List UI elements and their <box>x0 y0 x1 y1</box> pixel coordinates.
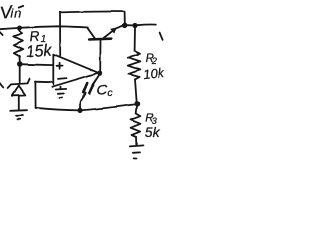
ground G1 (below zener) <box>10 109 27 112</box>
capacitor Cc bottom lead <box>80 92 86 110</box>
node F (R2/R3 divider junction) <box>134 101 140 107</box>
wire node B to op-amp + input <box>20 63 53 66</box>
wire op-amp - input stub <box>35 81 53 84</box>
node E (output / R2 top) <box>132 23 137 28</box>
capacitor Cc top lead <box>92 75 98 85</box>
wire feedback bottom run to divider node <box>36 104 137 110</box>
wire R3 bottom to ground <box>135 137 137 145</box>
wire node E down to R2 <box>134 28 136 51</box>
op-amp V- pin stub <box>60 87 62 89</box>
svg-text:R: R <box>29 28 40 45</box>
node D (emitter / top rail / output) <box>122 23 128 29</box>
op-amp U1 triangle <box>52 54 99 87</box>
wire output to right edge <box>137 23 155 26</box>
op-amp - input symbol <box>58 77 67 80</box>
svg-text:C: C <box>96 82 107 99</box>
ground G2 (op-amp V-) <box>56 88 66 91</box>
resistor R3 <box>131 114 141 138</box>
wire feedback down-leg <box>34 82 36 108</box>
zener diode D1 triangle <box>12 86 25 96</box>
ground G3 (below R3) <box>130 145 144 146</box>
svg-text:c: c <box>107 87 113 99</box>
input terminal tick left edge <box>0 32 3 35</box>
wire node D to node E <box>127 24 133 26</box>
node A (Vin / R1 top) <box>17 26 22 31</box>
svg-text:15k: 15k <box>25 42 53 61</box>
transistor Q1 emitter arrowhead <box>110 27 117 33</box>
resistor R1 <box>14 29 23 62</box>
wire top rail (node D up and left to op-amp V+) <box>60 12 125 25</box>
zener diode D1 cathode bar <box>8 79 30 88</box>
wire R2 bottom to node F <box>135 79 137 101</box>
op-amp + input symbol <box>57 63 63 69</box>
wire node B down to zener <box>19 64 21 82</box>
wire emitter to node D <box>116 26 122 29</box>
resistor R2 <box>128 51 141 79</box>
wire node F down to R3 <box>135 106 138 113</box>
wire base lead Q1 <box>99 40 101 73</box>
text fragment right edge (Vout) <box>160 33 163 40</box>
wire Vin input rail <box>0 26 88 29</box>
svg-text:10k: 10k <box>143 65 164 82</box>
svg-text:2: 2 <box>151 56 157 66</box>
svg-text:5k: 5k <box>145 124 161 140</box>
op-amp V+ supply pin from top rail <box>59 12 61 55</box>
transistor Q1 base bar <box>89 37 111 40</box>
node B (R1 bottom / zener / op-amp +) <box>17 61 23 67</box>
text fragment left edge <box>0 84 3 88</box>
node C (op-amp output / base junction) <box>97 71 102 76</box>
transistor Q1 collector lead <box>88 28 95 38</box>
transistor Q1 emitter lead <box>104 29 115 38</box>
capacitor Cc plate 2 <box>89 85 93 94</box>
capacitor Cc plate 1 <box>83 83 87 93</box>
wire zener anode to ground <box>18 95 20 110</box>
node (Cc bottom / feedback wire) <box>77 108 82 113</box>
